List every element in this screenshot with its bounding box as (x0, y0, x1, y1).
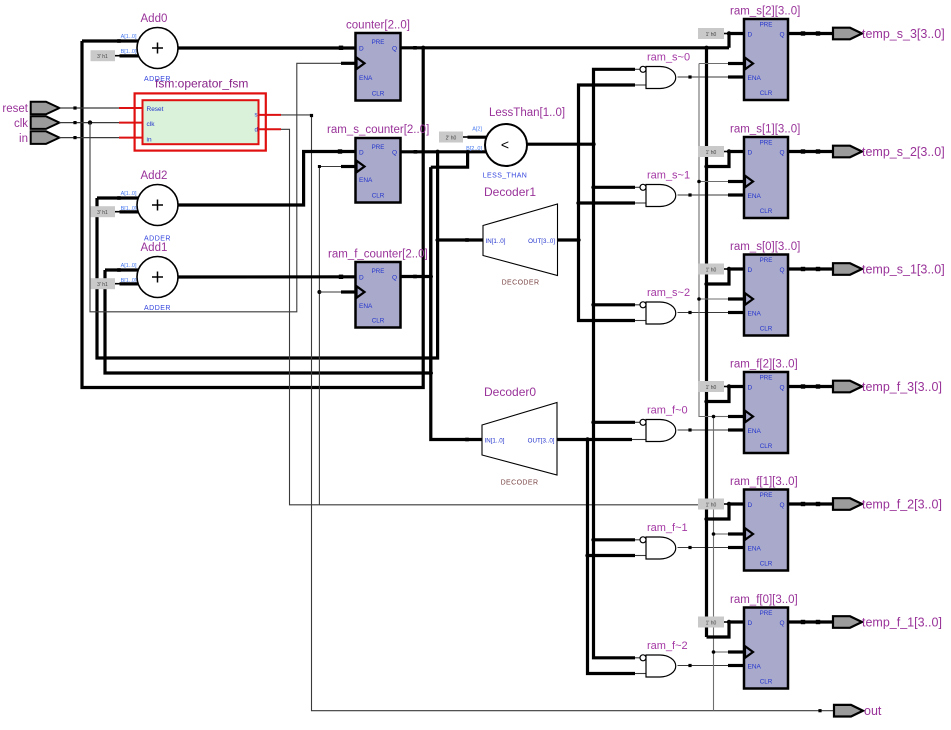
and-gate ram_f~2 (646, 655, 676, 677)
svg-text:D: D (748, 620, 753, 627)
svg-text:ram_f[1][3..0]: ram_f[1][3..0] (730, 476, 798, 488)
svg-text:clk: clk (147, 121, 156, 128)
adder Add0 (137, 28, 178, 69)
svg-text:Decoder0: Decoder0 (484, 385, 536, 399)
register ram_s[0][3..0] (744, 255, 788, 336)
wire vertical A branch row 4 (594, 538, 636, 541)
svg-text:Q: Q (779, 31, 784, 38)
and-gate ram_f~0 (646, 420, 676, 442)
wire ram_f_counter Q to V2 (401, 275, 431, 278)
svg-text:3' h1: 3' h1 (97, 54, 108, 60)
constant 1'h0 register row 2 (698, 264, 724, 275)
tick fsm out1 corner (310, 114, 313, 117)
wire V2 x=430.8 down to Decoder0 IN (431, 167, 482, 439)
junction vertical C on Decoder0 out (585, 437, 589, 441)
wire clk net to counter clock (90, 63, 341, 311)
wire Decoder1 output to vertical B (558, 238, 579, 241)
svg-text:ram_s_counter[2..0]: ram_s_counter[2..0] (327, 124, 429, 136)
wire ram_s[2][3..0] Q to output pin (788, 32, 833, 35)
wire vertical C x=587.5 Decoder0 to f-gate bottom inputs (588, 440, 636, 674)
wire thick ENA stub ram_f~0 (728, 428, 744, 431)
wire counter-clock distribution from out2 line up x=319.4 (319, 167, 341, 505)
svg-text:in: in (147, 137, 152, 144)
svg-text:OUT[3..0]: OUT[3..0] (528, 438, 555, 445)
wire fsm out2 down x=289.5 long line y=505 to ram_f[1] D (281, 129, 706, 505)
wire Add2 A input (97, 196, 139, 199)
wire fsm out1 down x=311.5 to out pin (281, 115, 833, 711)
svg-text:IN[1..0]: IN[1..0] (486, 238, 506, 245)
junction constant/D (727, 384, 731, 388)
svg-text:clk: clk (14, 118, 28, 130)
svg-text:Q: Q (779, 620, 784, 627)
junction vertical C (585, 553, 589, 557)
input pin clk (31, 116, 60, 129)
wire thick clock stub register 4 (728, 532, 744, 535)
svg-text:Add1: Add1 (141, 242, 168, 254)
register ram_f_counter[2..0] (356, 262, 401, 328)
svg-text:ENA: ENA (748, 546, 762, 553)
svg-text:ram_f[2][3..0]: ram_f[2][3..0] (730, 359, 798, 371)
svg-text:D: D (359, 274, 364, 281)
svg-text:2' h0: 2' h0 (446, 136, 457, 142)
svg-text:CLR: CLR (760, 208, 773, 215)
junction vertical B (576, 201, 580, 205)
wire clock branch register 4 (714, 533, 729, 535)
junction clock vertical (712, 415, 716, 419)
svg-text:ram_s~1: ram_s~1 (647, 170, 690, 182)
wire vertical C branch f~1 (588, 554, 636, 557)
svg-text:reset: reset (2, 103, 28, 115)
wire thick ENA stub ram_s~2 (728, 311, 744, 314)
svg-text:Q: Q (779, 149, 784, 156)
wire vertical A branch row 1 (594, 186, 636, 189)
wire ram_s_counter Q to LessThan B (401, 150, 487, 153)
svg-text:1' h0: 1' h0 (706, 32, 717, 38)
svg-text:D: D (748, 502, 753, 509)
wire Add0 A input (82, 39, 139, 42)
wire LessThan output to vertical A (527, 143, 594, 146)
adder Add1 (137, 257, 178, 298)
svg-text:CLR: CLR (760, 90, 773, 97)
svg-text:D: D (748, 31, 753, 38)
svg-text:temp_f_2[3..0]: temp_f_2[3..0] (862, 497, 942, 511)
wire ram_s~1 output to ENA (678, 194, 729, 196)
and-gate ram_s~0 (646, 67, 676, 89)
wire clock branch register 3 (714, 416, 729, 418)
svg-text:ENA: ENA (359, 177, 373, 184)
junction vertical A (591, 538, 595, 542)
output pin temp_f_1[3..0] (833, 616, 862, 628)
wire ram_s~0 output to ENA (678, 76, 729, 78)
wire Add1 A input (105, 268, 139, 271)
svg-text:Q: Q (392, 274, 397, 281)
svg-text:A[1..0]: A[1..0] (121, 263, 137, 269)
wire thick stub ram_s_counter clock (341, 165, 356, 168)
svg-text:CLR: CLR (760, 326, 773, 333)
and-gate ram_s~2 (646, 302, 676, 324)
wire thick clock stub register 1 (728, 180, 744, 183)
svg-text:<: < (501, 137, 509, 153)
svg-text:B[2..0]: B[2..0] (466, 146, 482, 152)
register ram_s[2][3..0] (744, 19, 788, 100)
svg-text:ram_s[1][3..0]: ram_s[1][3..0] (730, 124, 800, 136)
output pin temp_s_2[3..0] (833, 146, 862, 158)
register ram_f[0][3..0] (744, 608, 788, 689)
wire thick ENA stub ram_f~2 (728, 664, 744, 667)
tick clk wire (73, 121, 76, 124)
wire thick clock stub register 5 (728, 650, 744, 653)
wire in pin to fsm (59, 137, 119, 139)
wire ram_s_counter feedback loop: Add2.A x=97 down, y=358 right, up x=437.6 (97, 152, 438, 358)
register ram_s[1][3..0] (744, 137, 788, 218)
tick out wire (818, 709, 821, 712)
wire Decoder1 input from V3 (438, 238, 483, 241)
svg-text:Reset: Reset (147, 106, 164, 113)
tick Add0 A (117, 39, 121, 43)
svg-text:ram_s~2: ram_s~2 (647, 287, 690, 299)
wire clock branch register 1 (699, 181, 728, 183)
svg-text:ENA: ENA (748, 193, 762, 200)
svg-text:Q: Q (779, 502, 784, 509)
svg-text:counter[2..0]: counter[2..0] (346, 20, 410, 32)
svg-text:Q: Q (392, 46, 397, 53)
svg-text:ENA: ENA (748, 664, 762, 671)
junction clock vertical (712, 650, 716, 654)
wire thick ENA stub ram_s~1 (728, 193, 744, 196)
wire clock vertical x=713.5 lower (713, 417, 715, 711)
tick ram_s_counter D (338, 149, 342, 153)
wire thick ENA stub ram_s~0 (728, 75, 744, 78)
svg-text:LessThan[1..0]: LessThan[1..0] (489, 107, 565, 119)
svg-text:ENA: ENA (359, 75, 373, 82)
svg-text:3' h1: 3' h1 (97, 210, 108, 216)
input pin in (31, 131, 60, 144)
constant 1'h0 register row 1 (698, 146, 724, 157)
svg-text:A[1..0]: A[1..0] (121, 191, 137, 197)
svg-text:ADDER: ADDER (144, 305, 171, 312)
junction D-bus (704, 282, 708, 286)
wire counter Q long line to ram_s[2] D jog (401, 46, 730, 49)
svg-text:DECODER: DECODER (502, 280, 540, 287)
junction y=373 line into V2 (429, 371, 433, 375)
svg-text:PRE: PRE (760, 22, 773, 29)
junction vertical A (591, 303, 595, 307)
wire thick clock stub register 0 (728, 62, 744, 65)
wire ram_s[2] D jog from bus (729, 34, 744, 48)
wire ram_f[0] D jog from bus end (707, 622, 745, 637)
junction vertical A (591, 420, 595, 424)
svg-text:PRE: PRE (760, 140, 773, 147)
wire ram_s~2 output to ENA (678, 312, 729, 314)
junction clock vertical (712, 532, 716, 536)
decoder Decoder0 (482, 403, 557, 476)
svg-text:3' h1: 3' h1 (97, 282, 108, 288)
register ram_s_counter[2..0] (356, 138, 401, 203)
wire red stub into fsm clk (119, 122, 144, 124)
svg-text:Q: Q (392, 150, 397, 157)
register ram_f[1][3..0] (744, 490, 788, 571)
svg-text:ENA: ENA (359, 303, 373, 310)
comparator LessThan[1..0] (485, 124, 527, 166)
wire Add1 out to ram_f_counter D (178, 275, 356, 278)
wire ram_s[0][3..0] Q to output pin (788, 267, 833, 270)
wire D-bus vertical x=706.5 (705, 48, 708, 637)
svg-text:ENA: ENA (748, 75, 762, 82)
wire ram_f[0][3..0] Q to output pin (788, 620, 833, 623)
junction counter Q into V1 (421, 46, 425, 50)
svg-text:D: D (359, 150, 364, 157)
wire clk pin to fsm (59, 122, 119, 124)
wire Decoder0 output / ram_f~0 bottom input (557, 438, 632, 441)
tick clock corner (318, 165, 321, 168)
wire ram_f[1][3..0] Q to output pin (788, 502, 833, 505)
svg-text:d: d (255, 128, 258, 134)
svg-text:ram_s[0][3..0]: ram_s[0][3..0] (730, 241, 800, 253)
and-gate ram_f~1 (646, 537, 676, 559)
output pin out (834, 705, 863, 717)
junction constant/D (727, 620, 731, 624)
wire Add2 out to ram_s_counter D (178, 152, 356, 206)
decoder Decoder1 (483, 204, 558, 276)
svg-text:ENA: ENA (748, 311, 762, 318)
tick ram_f_counter D (339, 275, 343, 279)
junction clock vertical (697, 180, 701, 184)
svg-text:ram_f_counter[2..0]: ram_f_counter[2..0] (328, 249, 428, 261)
svg-text:1' h0: 1' h0 (706, 385, 717, 391)
wire vertical A branch row 3 (594, 421, 636, 424)
tick Add2 A (117, 196, 121, 200)
svg-text:1' h0: 1' h0 (706, 150, 717, 156)
svg-text:temp_f_1[3..0]: temp_f_1[3..0] (862, 615, 942, 629)
output pin temp_s_3[3..0] (833, 28, 862, 40)
output pin temp_s_1[3..0] (833, 263, 862, 275)
wire clock branch register 5 (714, 651, 729, 653)
junction D-bus (704, 517, 708, 521)
wire vertical A x=593.5 LessThan to gate top inputs (594, 69, 636, 658)
constant 3'h1 for Add0 (91, 50, 116, 61)
svg-text:Q: Q (779, 384, 784, 391)
junction ram_s_counter Q into V3 (435, 150, 439, 154)
svg-text:A[1..0]: A[1..0] (121, 34, 137, 40)
svg-text:ENA: ENA (748, 428, 762, 435)
wire vertical A branch row 2 (594, 303, 636, 306)
wire ram_f[2][3..0] Q to output pin (788, 385, 833, 388)
svg-text:PRE: PRE (760, 375, 773, 382)
svg-text:ram_f[0][3..0]: ram_f[0][3..0] (730, 594, 798, 606)
constant 1'h0 register row 5 (698, 617, 724, 628)
svg-text:CLR: CLR (760, 679, 773, 686)
junction D-bus (704, 164, 708, 168)
svg-text:s: s (255, 113, 258, 119)
wire vertical B branch s~1 (579, 201, 636, 204)
wire clock branch register 0 (699, 63, 728, 65)
svg-text:temp_f_3[3..0]: temp_f_3[3..0] (862, 380, 942, 394)
svg-text:D: D (748, 149, 753, 156)
junction D-bus top (704, 46, 708, 50)
svg-text:PRE: PRE (760, 257, 773, 264)
svg-text:ram_f~1: ram_f~1 (647, 522, 688, 534)
junction to ram_f_counter clock (317, 290, 321, 294)
svg-text:1' h0: 1' h0 (706, 268, 717, 274)
wire thick ENA stub ram_f~1 (728, 546, 744, 549)
wire register 2 D jog from bus (707, 269, 745, 284)
svg-text:CLR: CLR (372, 318, 385, 325)
svg-text:temp_s_2[3..0]: temp_s_2[3..0] (862, 145, 945, 159)
svg-text:D: D (748, 384, 753, 391)
svg-text:PRE: PRE (760, 492, 773, 499)
junction jog/less-than B row (466, 150, 470, 154)
wire jog V2 top to LessThan B row (431, 152, 468, 167)
svg-text:LESS_THAN: LESS_THAN (483, 173, 527, 180)
svg-text:ram_f~0: ram_f~0 (647, 405, 688, 417)
svg-text:ADDER: ADDER (144, 76, 171, 83)
wire ram_f_counter feedback loop: Add1.A x=105 down, y=373 right, V2 x=430.8 (105, 167, 431, 373)
junction Decoder1 out on vertical B (576, 238, 580, 242)
fsm U1 fsm:operator_fsm (135, 93, 266, 150)
junction LessThan out on vertical A (591, 142, 595, 146)
junction constant/D (727, 31, 731, 35)
svg-text:ram_f~2: ram_f~2 (647, 640, 688, 652)
svg-text:PRE: PRE (372, 144, 385, 151)
svg-text:ram_s~0: ram_s~0 (647, 52, 690, 64)
svg-text:OUT[3..0]: OUT[3..0] (528, 238, 555, 245)
junction Decoder1 IN on V3 (435, 238, 439, 242)
wire clock vertical x=699 upper, corner to x=713.5 (699, 64, 714, 417)
junction constant/D (727, 149, 731, 153)
junction clk net branch (88, 120, 92, 124)
adder Add2 (137, 185, 178, 226)
svg-text:PRE: PRE (372, 39, 385, 46)
svg-text:temp_s_1[3..0]: temp_s_1[3..0] (862, 262, 945, 276)
junction ram_f_counter Q into V2 (429, 274, 433, 278)
junction constant/D (727, 267, 731, 271)
wire counter feedback loop: Add0.A via x=82 down, y=387 right, up x=423 (82, 41, 423, 388)
wire ram_s[1][3..0] Q to output pin (788, 150, 833, 153)
junction clock vertical (697, 297, 701, 301)
wire clock branch register 2 (699, 298, 728, 300)
wire clk thick stub into counter clock (341, 62, 356, 65)
wire to ram_f_counter clock (319, 291, 341, 293)
register ram_f[2][3..0] (744, 372, 788, 453)
svg-text:IN[1..0]: IN[1..0] (485, 438, 505, 445)
wire ram_f~0 output to ENA (678, 429, 729, 431)
wire ram_f~1 output to ENA (678, 547, 729, 549)
svg-text:temp_s_3[3..0]: temp_s_3[3..0] (862, 27, 945, 41)
output pin temp_f_2[3..0] (833, 498, 862, 510)
wire red stub into fsm in (119, 137, 144, 139)
svg-text:CLR: CLR (760, 443, 773, 450)
svg-text:Add0: Add0 (141, 13, 168, 25)
wire register 4 D jog from bus (707, 504, 745, 519)
svg-text:Add2: Add2 (141, 170, 168, 182)
wire LessThan A input (468, 136, 487, 139)
tick counter D (339, 46, 343, 50)
input pin reset (31, 102, 60, 115)
svg-text:Q: Q (779, 267, 784, 274)
svg-text:Decoder1: Decoder1 (484, 185, 536, 199)
svg-text:B[1..0]: B[1..0] (121, 49, 137, 55)
wire red stub into fsm Reset (119, 107, 144, 109)
junction constant/D (727, 502, 731, 506)
tick Add1 A (117, 268, 121, 272)
svg-text:1' h0: 1' h0 (706, 503, 717, 509)
svg-text:in: in (19, 133, 28, 145)
output pin temp_f_3[3..0] (833, 381, 862, 393)
constant 3'h1 for Add1 (91, 278, 116, 289)
svg-text:ram_s[2][3..0]: ram_s[2][3..0] (730, 6, 800, 18)
register counter[2..0] (356, 33, 401, 101)
svg-text:out: out (864, 704, 882, 718)
and-gate ram_s~1 (646, 185, 676, 207)
junction D-bus (704, 399, 708, 403)
wire red stub fsm output 2 (258, 128, 281, 130)
wire reset pin to fsm (59, 107, 119, 109)
constant 2'h0 for LessThan A (439, 132, 463, 143)
constant 1'h0 register row 3 (698, 381, 724, 392)
svg-text:1' h0: 1' h0 (706, 621, 717, 627)
svg-text:CLR: CLR (760, 561, 773, 568)
wire register 1 D jog from bus (707, 152, 745, 167)
svg-text:D: D (748, 267, 753, 274)
wire thick stub ram_f_counter clock (341, 290, 356, 293)
tick in wire (73, 136, 76, 139)
wire Add0 out to counter D (178, 46, 356, 49)
tick reset wire (73, 106, 76, 109)
tick Decoder0 input (465, 438, 469, 442)
svg-text:D: D (359, 46, 364, 53)
svg-text:A[2]: A[2] (472, 127, 482, 133)
svg-text:PRE: PRE (760, 610, 773, 617)
wire thick clock stub register 3 (728, 415, 744, 418)
constant 1'h0 register row 4 (698, 499, 724, 510)
constant 1'h0 register row 0 (698, 28, 724, 39)
svg-text:PRE: PRE (372, 268, 385, 275)
svg-text:DECODER: DECODER (501, 480, 539, 487)
junction vertical A (591, 185, 595, 189)
wire register 3 D jog from bus (707, 387, 745, 402)
wire red stub fsm output 1 (258, 114, 281, 116)
wire vertical B x=578.5 Decoder1 to s-gate bottom inputs (579, 85, 636, 321)
wire thick clock stub register 2 (728, 297, 744, 300)
svg-text:CLR: CLR (372, 91, 385, 98)
svg-text:CLR: CLR (372, 193, 385, 200)
constant 3'h1 for Add2 (91, 206, 116, 217)
wire ram_f~2 output to ENA (678, 665, 729, 667)
